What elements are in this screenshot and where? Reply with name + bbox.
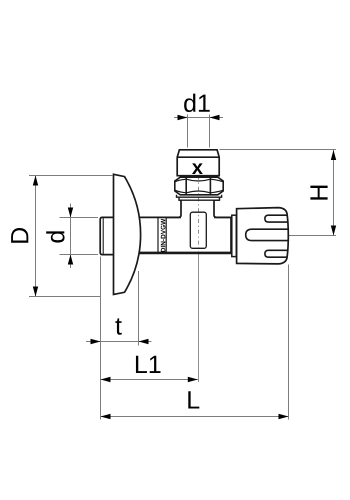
union nut bbox=[175, 177, 223, 195]
union nut skirt bbox=[177, 195, 222, 197]
dimension t bbox=[86, 318, 152, 344]
label plate on body bbox=[190, 212, 206, 248]
dimension H bbox=[310, 150, 336, 236]
pipe stub bbox=[100, 217, 113, 254]
cap with x marking bbox=[177, 150, 219, 176]
handwheel flute bottom bbox=[265, 250, 288, 257]
valve body bbox=[214, 217, 231, 253]
handwheel bbox=[237, 208, 289, 264]
handwheel flute middle bbox=[246, 229, 288, 240]
bonnet neck bbox=[166, 200, 231, 217]
bonnet ring between body and handwheel bbox=[232, 215, 237, 256]
wire: extension line from pipe end (left reference) bbox=[100, 257, 102, 420]
dimension L1 bbox=[101, 356, 198, 382]
valve body bottom line bbox=[139, 252, 231, 255]
wire: extension line from handwheel right edge for L bbox=[288, 265, 290, 420]
dimension L bbox=[101, 391, 289, 419]
dimension D bbox=[11, 176, 113, 297]
wire: extension line from cap top for H bbox=[220, 149, 337, 151]
x marking on cap bbox=[192, 163, 203, 174]
union nut flange bbox=[179, 197, 220, 200]
dimension d1 bbox=[174, 94, 223, 148]
handwheel flute top bbox=[265, 215, 288, 222]
wire: extension line from handwheel center for H bbox=[289, 235, 336, 237]
DIN-DVGW marking band bbox=[158, 217, 166, 253]
inlet tube top line bbox=[140, 216, 182, 218]
wall rosette bbox=[114, 174, 141, 294]
dimension d bbox=[46, 204, 98, 269]
centerline vertical axis bbox=[198, 176, 200, 382]
wire: extension line from rosette right face for t bbox=[138, 271, 140, 346]
